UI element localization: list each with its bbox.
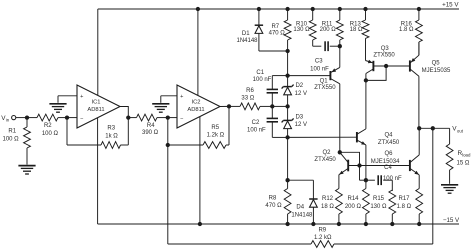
wire A node to base node	[340, 152, 360, 165]
node D1 rail junction	[257, 7, 261, 11]
svg-text:15 Ω: 15 Ω	[457, 160, 470, 166]
label R5	[207, 125, 225, 138]
label D1	[236, 31, 258, 44]
resistor Rload 15ohm	[446, 128, 453, 184]
op-amp IC2	[177, 85, 220, 128]
label Q1	[314, 78, 336, 91]
svg-text:ZTX550: ZTX550	[314, 85, 336, 91]
svg-text:−: −	[80, 116, 83, 122]
svg-text:1.2k Ω: 1.2k Ω	[207, 132, 225, 138]
label R4	[142, 123, 159, 136]
resistor R8	[284, 180, 291, 224]
node Q3 collector junction	[364, 78, 368, 82]
label R7	[269, 24, 286, 37]
label Q6	[371, 151, 400, 165]
label -15 V	[443, 217, 460, 224]
svg-text:R6: R6	[246, 88, 254, 94]
resistor R14	[363, 189, 370, 225]
capacitor C2	[267, 106, 288, 137]
node R8 rail junction	[285, 222, 289, 226]
resistor R4	[128, 114, 168, 121]
svg-text:R17: R17	[398, 196, 410, 202]
svg-text:470 Ω: 470 Ω	[265, 203, 282, 209]
svg-text:390 Ω: 390 Ω	[142, 130, 159, 136]
node output feedback junction	[431, 126, 435, 130]
resistor R9	[168, 241, 433, 248]
resistor R7	[284, 9, 291, 51]
svg-text:in: in	[6, 118, 10, 123]
label R6	[241, 88, 254, 101]
label D2	[295, 83, 307, 97]
node Q3 base junction	[384, 64, 388, 68]
node R10 rail junction	[311, 7, 315, 11]
label C3	[310, 58, 329, 72]
label Vin	[1, 115, 10, 123]
svg-text:R4: R4	[147, 123, 155, 129]
svg-text:D3: D3	[295, 114, 303, 120]
svg-text:R1: R1	[8, 129, 16, 135]
resistor R1	[24, 118, 31, 165]
capacitor C1	[267, 76, 288, 107]
node Q1 emitter junction	[338, 44, 342, 48]
svg-text:D2: D2	[295, 83, 303, 89]
label R16	[399, 21, 414, 33]
node R8-D4 junction	[285, 178, 289, 182]
svg-text:MJE15034: MJE15034	[371, 159, 400, 165]
label R12	[321, 196, 334, 210]
label R9	[314, 227, 332, 241]
svg-text:1k Ω: 1k Ω	[105, 134, 118, 140]
svg-text:C3: C3	[315, 58, 323, 64]
svg-text:out: out	[457, 128, 464, 133]
svg-text:12 V: 12 V	[295, 122, 307, 128]
svg-text:200 Ω: 200 Ω	[320, 27, 337, 33]
svg-text:18 Ω: 18 Ω	[350, 27, 363, 33]
resistor R5	[168, 106, 229, 148]
resistor R16	[416, 9, 423, 55]
label C4	[383, 165, 402, 182]
label C1	[253, 70, 272, 83]
label D3	[295, 114, 307, 128]
resistor R3	[67, 118, 128, 149]
ground IC1 + input	[49, 104, 66, 112]
svg-text:R15: R15	[373, 196, 385, 202]
svg-text:C4: C4	[384, 165, 392, 171]
ground output load	[441, 185, 458, 193]
resistor R10	[309, 9, 316, 46]
node C4 junction	[364, 178, 368, 182]
diode D2 zener 12V	[282, 76, 294, 107]
transistor Q2 ZTX450	[339, 152, 410, 174]
node Q4 base node	[285, 135, 289, 139]
wire Q4 base node down	[287, 137, 289, 180]
transistor Q4 ZTX450	[288, 129, 366, 145]
svg-text:100 nF: 100 nF	[310, 66, 329, 72]
wire IC2 -15V pin	[199, 117, 201, 224]
svg-text:R5: R5	[211, 125, 219, 131]
node feedback junction	[166, 143, 170, 147]
node Q2 base junction	[357, 163, 361, 167]
svg-text:130 Ω: 130 Ω	[293, 27, 310, 33]
svg-text:R12: R12	[322, 196, 334, 202]
ground input	[18, 166, 35, 174]
node IC2 +15V rail junction	[196, 7, 200, 11]
label R17	[397, 196, 412, 210]
wire base node to C4 node	[359, 166, 361, 181]
node R16 rail junction	[417, 7, 421, 11]
svg-text:R14: R14	[347, 196, 359, 202]
svg-text:AD811: AD811	[87, 107, 104, 113]
svg-text:1N4148: 1N4148	[291, 213, 313, 219]
svg-text:470 Ω: 470 Ω	[269, 30, 286, 36]
transistor Q5 MJE15035	[410, 42, 419, 128]
svg-text:ZTX550: ZTX550	[373, 52, 395, 58]
svg-text:Q1: Q1	[320, 78, 329, 84]
svg-text:IC1: IC1	[91, 100, 100, 106]
wire feedback down	[167, 145, 169, 244]
transistor Q3 ZTX550	[366, 60, 410, 81]
op-amp IC1	[77, 85, 120, 128]
diode D4 1N4148	[288, 180, 318, 224]
node IC2 inverting input	[166, 115, 170, 119]
wire IC2 +15V pin	[197, 9, 199, 95]
node Q1-Q2 collector junction	[338, 150, 342, 154]
label R10	[293, 21, 310, 33]
svg-text:load: load	[462, 153, 471, 158]
resistor R15	[389, 180, 396, 224]
wire output	[419, 127, 449, 129]
svg-text:AD811: AD811	[187, 107, 204, 113]
node output junction	[417, 126, 421, 130]
label R8	[265, 195, 282, 209]
svg-text:+: +	[80, 94, 83, 100]
svg-text:Q4: Q4	[384, 132, 393, 138]
svg-text:D4: D4	[296, 205, 304, 211]
wire to Q1 base node	[287, 51, 289, 76]
node R13 rail junction	[363, 7, 367, 11]
svg-text:R8: R8	[269, 195, 277, 201]
wire Vin to R1 node	[16, 117, 27, 119]
node D1-R7 junction	[285, 49, 289, 53]
label R1	[3, 129, 20, 143]
diode D3 zener 12V	[282, 106, 294, 137]
node R15 rail junction	[390, 222, 394, 226]
node IC2 -15V rail junction	[198, 222, 202, 226]
svg-text:200 Ω: 200 Ω	[345, 204, 362, 210]
resistor R6	[229, 103, 272, 110]
node R12 rail junction	[337, 222, 341, 226]
svg-text:R7: R7	[271, 24, 279, 30]
wire IC1 +15V pin	[97, 9, 99, 95]
label R2	[42, 123, 59, 137]
svg-text:33 Ω: 33 Ω	[241, 96, 254, 102]
node input junction	[25, 115, 29, 119]
svg-text:ZTX450: ZTX450	[378, 140, 400, 146]
capacitor C4	[366, 175, 392, 185]
svg-text:IC2: IC2	[191, 100, 200, 106]
node Q1 base node	[285, 73, 289, 77]
wire IC2 noninverting input	[161, 96, 177, 103]
wire Q3-Q4 collector link	[365, 80, 367, 128]
node R17 rail junction	[417, 222, 421, 226]
svg-text:+: +	[180, 94, 183, 100]
wire D1 to R7 node	[259, 50, 288, 52]
wire IC1 noninverting input	[58, 96, 77, 103]
svg-text:ZTX450: ZTX450	[314, 157, 336, 163]
svg-text:12 V: 12 V	[295, 91, 307, 97]
label Vout	[452, 126, 463, 134]
svg-text:1N4148: 1N4148	[236, 38, 258, 44]
svg-text:Q3: Q3	[381, 46, 390, 52]
svg-text:+15 V: +15 V	[442, 1, 459, 8]
label R14	[345, 196, 362, 210]
svg-text:100 Ω: 100 Ω	[3, 136, 20, 142]
svg-text:100 nF: 100 nF	[247, 128, 266, 134]
label Rload	[457, 150, 471, 167]
resistor R13	[362, 9, 369, 61]
label +15 V	[442, 1, 459, 8]
label R13	[350, 21, 363, 33]
svg-text:R3: R3	[107, 126, 115, 132]
node R7 rail junction	[285, 7, 289, 11]
wire Q2 emitter down	[338, 175, 340, 189]
label R11	[320, 21, 337, 33]
svg-text:R2: R2	[44, 123, 52, 129]
svg-text:Q2: Q2	[322, 150, 331, 156]
svg-text:D1: D1	[242, 31, 250, 37]
label Q5	[422, 60, 451, 74]
svg-text:MJE15035: MJE15035	[422, 68, 451, 74]
transistor Q6 MJE15034	[410, 128, 419, 188]
resistor R12	[336, 189, 343, 225]
label R15	[370, 196, 387, 210]
svg-text:C1: C1	[256, 70, 264, 76]
node zener center	[285, 104, 289, 108]
wire +15V top rail	[98, 8, 459, 10]
label C2	[247, 120, 266, 134]
wire feedback up to output	[432, 128, 434, 244]
label Q2	[314, 150, 336, 163]
svg-text:130 Ω: 130 Ω	[370, 204, 387, 210]
diode D1 1N4148	[255, 9, 263, 51]
wire IC2 -in	[168, 117, 177, 119]
wire to zener node	[272, 105, 287, 107]
label R3	[105, 126, 118, 140]
wire IC2 -in to feedback	[167, 118, 169, 145]
node D4 rail junction	[311, 222, 315, 226]
svg-text:1.8 Ω: 1.8 Ω	[399, 27, 414, 33]
node C1-C2 junction	[270, 104, 274, 108]
wire Q3 base-collector loop	[366, 66, 386, 80]
wire Q4 emitter down	[365, 145, 367, 189]
label Q3	[373, 46, 395, 58]
svg-text:−15 V: −15 V	[443, 217, 460, 224]
transistor Q1 ZTX550	[288, 46, 340, 152]
node R11 rail junction	[338, 7, 342, 11]
wire IC1 output	[120, 107, 128, 118]
capacitor C3	[313, 41, 340, 51]
svg-text:18 Ω: 18 Ω	[321, 204, 334, 210]
wire -15V bottom rail	[98, 223, 459, 225]
wire IC1 -15V pin	[97, 118, 99, 224]
resistor R2	[27, 114, 67, 121]
node R14 rail junction	[364, 222, 368, 226]
svg-text:Q5: Q5	[432, 60, 441, 66]
wire IC1 -in	[67, 117, 77, 119]
label D4	[291, 205, 313, 219]
node IC1 output	[126, 115, 130, 119]
svg-text:Q6: Q6	[384, 151, 393, 157]
node IC1 inverting input	[65, 115, 69, 119]
resistor R17	[416, 189, 423, 225]
svg-text:1.2 kΩ: 1.2 kΩ	[314, 235, 332, 241]
node Vin terminal	[12, 116, 16, 120]
node IC2 output	[227, 104, 231, 108]
svg-text:C2: C2	[252, 120, 260, 126]
svg-text:1.8 Ω: 1.8 Ω	[397, 204, 412, 210]
svg-text:100 nF: 100 nF	[253, 77, 272, 83]
label Q4	[378, 132, 400, 146]
wire IC2 output	[220, 105, 229, 107]
resistor R11	[336, 9, 343, 46]
svg-text:−: −	[180, 116, 183, 122]
ground IC2 + input	[152, 104, 169, 112]
wire link	[360, 179, 366, 181]
svg-text:R9: R9	[318, 227, 326, 233]
svg-text:100 Ω: 100 Ω	[42, 131, 59, 137]
